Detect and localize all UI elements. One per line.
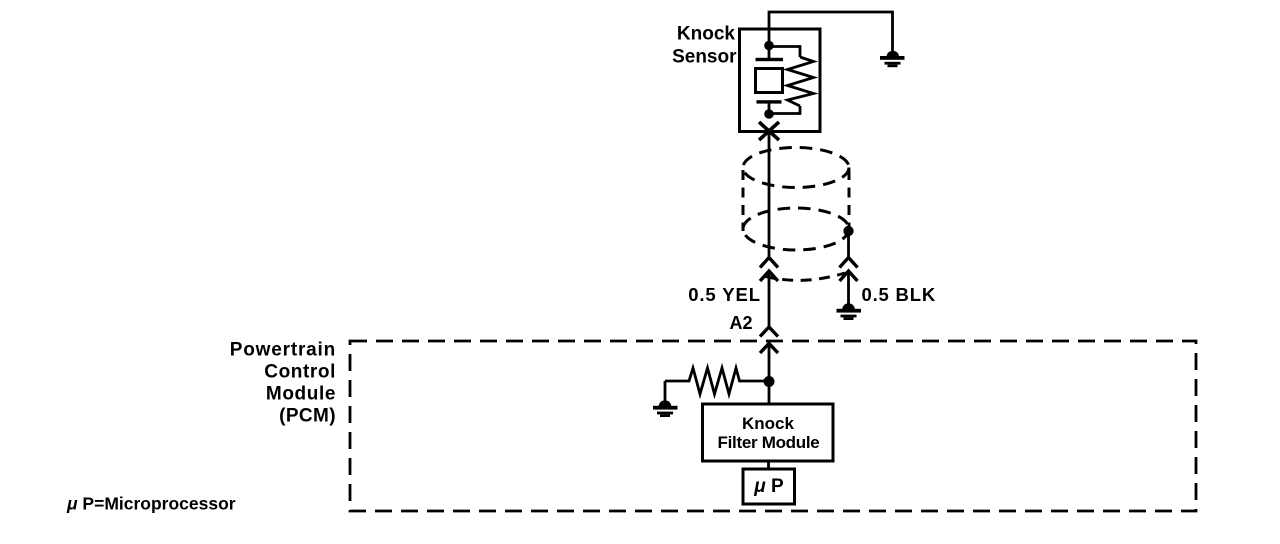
svg-text:Module: Module — [266, 384, 336, 405]
wire 0.5 BLK — [847, 272, 850, 306]
shield right side — [848, 170, 851, 228]
svg-text:μ P: μ P — [753, 476, 784, 497]
label Powertrain Control Module (PCM) — [230, 340, 336, 427]
knock filter module box — [703, 404, 834, 461]
svg-text:Control: Control — [264, 362, 336, 383]
svg-text:Powertrain: Powertrain — [230, 340, 336, 361]
label Knock Sensor — [672, 24, 737, 68]
wire dot to top plate — [768, 46, 771, 59]
wire resistor bottom to node — [769, 106, 800, 114]
wire resistor to ground — [664, 381, 667, 403]
svg-text:0.5 YEL: 0.5 YEL — [688, 284, 761, 305]
ground G3 (bias resistor) — [653, 400, 678, 417]
connector chevrons (black wire, inline) — [840, 258, 858, 282]
shield middle ellipse — [743, 208, 849, 250]
shield bottom arc — [764, 273, 845, 280]
wire sensor to connector (yellow lead) — [768, 131, 771, 257]
ground G1 (top right) — [880, 51, 905, 67]
svg-text:Knock: Knock — [742, 414, 795, 433]
resistor (bias, horizontal zigzag) — [665, 368, 765, 394]
wire knock filter module to microprocessor — [767, 461, 770, 469]
wire knock sensor to ground (top) — [769, 12, 893, 53]
resistor (internal, vertical zigzag) — [788, 57, 814, 106]
svg-text:Filter Module: Filter Module — [718, 433, 820, 452]
node junction bottom (inside sensor) — [764, 109, 774, 119]
node shield drain — [843, 226, 853, 236]
label Knock Filter Module — [718, 414, 820, 452]
svg-text:(PCM): (PCM) — [279, 406, 336, 427]
svg-text:Knock: Knock — [677, 24, 736, 45]
wire node to resistor top — [769, 47, 800, 58]
piezo element (square) — [756, 69, 783, 93]
piezo bottom plate — [757, 100, 782, 103]
node junction (resistor / signal) — [764, 376, 775, 387]
svg-text:μ P=Microprocessor: μ P=Microprocessor — [66, 494, 236, 514]
svg-text:0.5 BLK: 0.5 BLK — [862, 284, 936, 305]
svg-text:Sensor: Sensor — [672, 47, 737, 68]
PCM dashed box — [350, 341, 1196, 511]
wire A2 to knock filter module — [768, 345, 771, 404]
piezo top plate — [756, 58, 784, 61]
ground G2 (black wire) — [837, 303, 862, 320]
wire shield drain down — [847, 231, 850, 257]
svg-text:A2: A2 — [729, 313, 752, 333]
terminal A2 chevron (inside) — [760, 344, 778, 354]
knock sensor box — [740, 29, 821, 132]
wire bottom plate to node — [768, 103, 771, 114]
terminal A2 chevron (outside) — [760, 327, 778, 337]
connector chevrons (yellow wire, inline) — [760, 258, 778, 282]
node junction top (inside sensor) — [764, 41, 774, 51]
shield top ellipse — [743, 148, 849, 188]
shield left side — [742, 170, 745, 231]
microprocessor box U1 — [743, 469, 795, 504]
connector X (splice at sensor) — [759, 122, 779, 140]
wire 0.5 YEL — [768, 272, 771, 327]
